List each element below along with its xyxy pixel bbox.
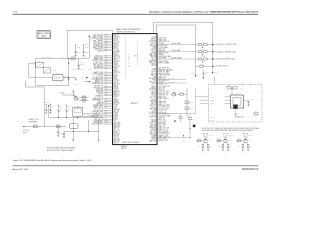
wire: drops bbox=[72, 117, 74, 131]
resistor R0442 (base) bbox=[216, 140, 224, 142]
microprocessor U0100 (Patriot) outline bbox=[113, 34, 158, 145]
svg-text:EIM_D5: EIM_D5 bbox=[113, 143, 118, 145]
capacitor C0153 bbox=[185, 107, 189, 110]
svg-text:R15D: R15D bbox=[105, 66, 108, 68]
off-page arrow J2_USB_D+_3V3 (SHT 1, B4) bbox=[213, 44, 215, 45]
svg-text:Q0442: Q0442 bbox=[228, 140, 232, 142]
svg-text:EXP1_CS*: EXP1_CS* bbox=[159, 96, 166, 98]
ferrite bead (filled) bbox=[193, 125, 195, 127]
svg-text:C0155: C0155 bbox=[205, 72, 209, 74]
regulator U0301 bbox=[73, 107, 83, 116]
svg-text:J2_USB_ID (SHT 1): J2_USB_ID (SHT 1) bbox=[216, 66, 229, 68]
svg-text:USB_D+_3V3: USB_D+_3V3 bbox=[159, 53, 168, 55]
wire: vertical drop bbox=[186, 88, 188, 117]
net INT_SPKR from U0100 bbox=[157, 112, 159, 114]
svg-text:VIP_IN_2_IN: VIP_IN_2_IN bbox=[94, 68, 103, 70]
svg-text:FROM SHEET 1: FROM SHEET 1 bbox=[29, 121, 39, 123]
svg-text:R0440: R0440 bbox=[183, 118, 187, 120]
wire: top route A bbox=[153, 22, 155, 33]
resistor R0220 bbox=[33, 126, 37, 128]
net EXP1_CS* from U0100 bbox=[157, 104, 159, 106]
svg-text:GND: GND bbox=[245, 153, 247, 155]
net EXT_SPKR from U0100 bbox=[157, 133, 159, 135]
U0103 internal bus line bbox=[137, 42, 139, 66]
net PA_EN from U0100 bbox=[157, 69, 159, 71]
svg-text:C3B: C3B bbox=[105, 68, 108, 70]
net EXT_SPKR from U0100 bbox=[157, 48, 159, 50]
TCXO box stubs bbox=[200, 96, 209, 98]
transistor Q0205 bbox=[74, 96, 78, 100]
wire: feedback loop right bbox=[68, 59, 70, 86]
svg-text:J2_MIC_HI: J2_MIC_HI bbox=[23, 130, 30, 132]
net USB_ID from U0100 bbox=[157, 120, 159, 122]
svg-text:CTL_MISO_5V: CTL_MISO_5V bbox=[159, 114, 169, 116]
svg-text:EIM_D4: EIM_D4 bbox=[152, 83, 157, 85]
svg-text:CTL_MOSI_OUT: CTL_MOSI_OUT bbox=[159, 86, 170, 88]
power flag A bbox=[68, 79, 70, 80]
svg-text:UNSW_B+: UNSW_B+ bbox=[44, 102, 50, 104]
wire: top route B bbox=[156, 25, 158, 34]
svg-text:MCU: MCU bbox=[135, 55, 138, 57]
wire: SPI to expansion bbox=[157, 79, 186, 81]
power flag pair with bypass caps bbox=[46, 104, 47, 105]
transistor Q0150 bbox=[172, 93, 176, 97]
TCXO shield (dashed outline) bbox=[209, 85, 263, 123]
off-page arrow (clock out) bbox=[174, 120, 176, 122]
svg-text:V5_EN: V5_EN bbox=[159, 89, 164, 91]
svg-text:J2_USB_VBUS (SHT 1, B6): J2_USB_VBUS (SHT 1, B6) bbox=[216, 59, 235, 61]
wire: Q0443 collector rail bbox=[244, 136, 247, 138]
capacitor C0444 bbox=[248, 100, 250, 101]
net EXT_SPKR from U0100 bbox=[157, 71, 159, 73]
svg-text:7-76: 7-76 bbox=[13, 11, 18, 13]
ground bbox=[72, 139, 74, 141]
net USB_VBUS from U0100 bbox=[157, 109, 159, 111]
svg-text:C0441: C0441 bbox=[227, 85, 231, 87]
svg-text:T16C: T16C bbox=[105, 87, 108, 89]
net CTL_SCLK from U0100 bbox=[157, 129, 159, 131]
off-page arrow J2_USB_VBUS (SHT 1, B6) bbox=[213, 58, 215, 59]
svg-text:C0302: C0302 bbox=[85, 51, 89, 53]
svg-text:R0442: R0442 bbox=[217, 138, 220, 140]
net ABACUS_CLK from U0100 bbox=[157, 126, 159, 128]
capacitor C0331 bbox=[66, 110, 68, 112]
EMI filter VR0152 bbox=[198, 51, 201, 53]
wire: SW_B+ rail bbox=[79, 58, 90, 60]
svg-text:GP3_INT*_OUT: GP3_INT*_OUT bbox=[92, 124, 103, 126]
U0103 internal bus line bbox=[125, 36, 127, 78]
svg-text:INT_SPKR_3V3: INT_SPKR_3V3 bbox=[159, 68, 170, 70]
svg-text:UNSW_B+: UNSW_B+ bbox=[208, 135, 214, 137]
transistor Q0442 bbox=[224, 139, 227, 142]
resistor R0445 bbox=[202, 145, 204, 148]
EMI filter VR0153 bbox=[198, 58, 201, 60]
power flag left bbox=[48, 105, 50, 106]
net ADC_IN2 from U0100 bbox=[157, 98, 159, 100]
svg-text:Schematics, Component Location: Schematics, Component Location Diagrams,… bbox=[149, 10, 259, 13]
svg-text:V2_EN: V2_EN bbox=[159, 82, 164, 84]
net USB_ID row bbox=[196, 65, 200, 67]
net TX_EN from U0100 bbox=[157, 50, 159, 52]
svg-text:U0103-2: U0103-2 bbox=[121, 146, 127, 148]
svg-text:GND: GND bbox=[225, 153, 227, 155]
net CTL_SCLK from U0100 bbox=[157, 122, 159, 124]
net MAP_SCL from U0100 bbox=[157, 92, 159, 94]
svg-text:Q0150: Q0150 bbox=[172, 90, 176, 92]
svg-text:C0221: C0221 bbox=[60, 133, 64, 135]
svg-text:GPIO_PB1: GPIO_PB1 bbox=[150, 116, 157, 118]
resistor R0441 (base) bbox=[196, 140, 204, 142]
svg-text:USB_D-_5V: USB_D-_5V bbox=[159, 83, 167, 85]
net USB_VBUS_RAW bbox=[157, 58, 197, 60]
svg-text:GP5: GP5 bbox=[128, 63, 131, 65]
svg-text:R0154: R0154 bbox=[200, 64, 204, 66]
power flags for Q0443 cell bbox=[243, 133, 244, 134]
transistor Q0441 bbox=[204, 139, 207, 142]
svg-text:Y0440: Y0440 bbox=[235, 93, 239, 95]
capacitor C0330 bbox=[58, 110, 60, 112]
svg-text:GP1: GP1 bbox=[128, 56, 131, 58]
resistor R0150 bbox=[180, 93, 184, 95]
svg-text:UNSW_B+: UNSW_B+ bbox=[228, 135, 234, 137]
svg-text:INT_SPKR: INT_SPKR bbox=[159, 58, 166, 60]
net V5_EN from U0100 bbox=[157, 102, 159, 104]
svg-text:TEMP_SNS_3V3: TEMP_SNS_3V3 bbox=[159, 75, 170, 77]
svg-text:CTL_SCLK: CTL_SCLK bbox=[159, 124, 166, 126]
svg-text:USB_D-_OUT: USB_D-_OUT bbox=[159, 140, 168, 142]
wire: feedback loop left bbox=[34, 59, 36, 86]
power flag C0302 bypass bbox=[83, 45, 85, 46]
header rule bbox=[13, 13, 259, 15]
svg-text:UNSW_B+: UNSW_B+ bbox=[248, 135, 254, 137]
svg-text:MICROPROCESSOR SECTION: MICROPROCESSOR SECTION bbox=[116, 31, 135, 33]
svg-text:Q0441: Q0441 bbox=[208, 140, 212, 142]
svg-text:SYN_LOCK: SYN_LOCK bbox=[159, 38, 167, 40]
net PA_EN from U0100 bbox=[157, 46, 159, 48]
net INT_SPKR from U0100 bbox=[157, 78, 159, 80]
resistor R0206 bbox=[82, 99, 86, 101]
net USB_ID from U0100 bbox=[157, 79, 159, 81]
svg-text:CTL_MISO_OUT: CTL_MISO_OUT bbox=[159, 133, 170, 135]
net DISP_TX from U0100 bbox=[157, 106, 159, 108]
crystal Y0440 16.8 MHz TCXO bbox=[231, 95, 244, 108]
net ADC_IN2 from U0100 bbox=[157, 74, 159, 76]
junction: bus end bbox=[212, 72, 213, 73]
ground bbox=[98, 139, 100, 141]
footer rule bbox=[13, 165, 259, 167]
svg-text:C0213: C0213 bbox=[88, 69, 92, 71]
svg-text:C0153: C0153 bbox=[190, 108, 194, 110]
op-amp U0201-A bbox=[36, 62, 44, 67]
grounds Q0443 bbox=[242, 148, 244, 150]
capacitor C0221 to ground bbox=[57, 125, 60, 128]
power flag bbox=[183, 135, 184, 136]
capacitor C0210 bbox=[77, 64, 79, 66]
net USB_D+_RAW bbox=[157, 44, 197, 46]
off-page arrow: audio out bbox=[84, 81, 89, 83]
net SYN_LOCK from U0100 bbox=[157, 62, 159, 64]
emitter legs Q0441 bbox=[203, 142, 205, 144]
net PA_EN from U0100 bbox=[157, 115, 159, 117]
net ABACUS_CLK from U0100 bbox=[157, 54, 159, 56]
net MAP_SCL from U0100 bbox=[157, 94, 159, 96]
grounds Q0441 bbox=[202, 148, 204, 150]
net PA_EN from U0100 bbox=[157, 117, 159, 119]
svg-text:CTL_CS*_OUT: CTL_CS*_OUT bbox=[159, 108, 169, 110]
capacitor C0441 bbox=[227, 87, 231, 89]
junction bbox=[68, 58, 69, 59]
svg-text:J2_PTT*: J2_PTT* bbox=[23, 132, 29, 134]
wire: left return bbox=[28, 63, 30, 77]
emitter legs Q0442 bbox=[223, 142, 225, 144]
net USB_VBUS from U0100 bbox=[157, 140, 159, 142]
net MAP_SCL from U0100 bbox=[157, 41, 159, 43]
off-page arrow J2_USB_D-_3V3 (SHT 1, B5) bbox=[213, 51, 215, 52]
net LVZIF_CS* from U0100 bbox=[157, 42, 159, 44]
svg-text:Figure 7-31. HUE4039A Control: Figure 7-31. HUE4039A Controller Block D… bbox=[13, 159, 92, 162]
svg-text:V_MCU: V_MCU bbox=[84, 44, 89, 46]
bus label box bbox=[84, 113, 97, 116]
svg-text:CTL_SCLK: CTL_SCLK bbox=[159, 138, 166, 140]
svg-text:GP7: GP7 bbox=[128, 66, 131, 68]
wire: row to buffer bbox=[157, 137, 190, 139]
net USB_D-_RAW bbox=[157, 51, 197, 53]
junction bbox=[212, 59, 213, 60]
net ABACUS_DAT from U0100 bbox=[157, 87, 159, 89]
svg-text:GND: GND bbox=[205, 153, 207, 155]
wire: clock feed bbox=[157, 113, 196, 115]
wire: Q0442 collector rail bbox=[224, 136, 227, 138]
ground bbox=[75, 54, 77, 56]
svg-text:R0212: R0212 bbox=[72, 69, 76, 71]
wire: route to J2 bbox=[24, 81, 26, 88]
svg-text:R0443: R0443 bbox=[237, 138, 240, 140]
capacitor C0333 bbox=[63, 131, 65, 133]
power flag C0301 bypass bbox=[75, 45, 77, 46]
wire: stub to U0201 bbox=[29, 62, 36, 64]
svg-text:U0202: U0202 bbox=[56, 73, 60, 75]
svg-text:J2_USB_D-_3V3 (SHT 1, B5): J2_USB_D-_3V3 (SHT 1, B5) bbox=[216, 51, 236, 53]
net DISP_TX from U0100 bbox=[157, 52, 159, 54]
svg-text:DISP_RX_5V: DISP_RX_5V bbox=[159, 95, 168, 97]
svg-text:VR0153: VR0153 bbox=[201, 56, 205, 58]
net DISP_RX from U0100 bbox=[157, 83, 159, 85]
svg-text:August 31, 2007: August 31, 2007 bbox=[13, 168, 30, 171]
svg-text:GP6: GP6 bbox=[128, 64, 131, 66]
svg-text:100K: 100K bbox=[238, 146, 241, 148]
capacitor C0302 bbox=[82, 50, 84, 52]
wire: mic audio net bbox=[35, 58, 67, 60]
svg-text:G7B: G7B bbox=[105, 81, 108, 83]
svg-text:TX_EN_3V3: TX_EN_3V3 bbox=[159, 110, 167, 112]
svg-text:GP0: GP0 bbox=[128, 54, 131, 56]
emitter legs Q0443 bbox=[243, 142, 245, 144]
thermal pad (filled) bbox=[234, 105, 238, 109]
ground bbox=[83, 54, 85, 56]
resistor R0447 bbox=[242, 145, 244, 148]
capacitor C0442 bbox=[233, 87, 237, 89]
net USB_D- from U0100 bbox=[157, 134, 159, 136]
svg-text:USB_D+_3V3: USB_D+_3V3 bbox=[159, 135, 168, 137]
net ABACUS_CLK from U0100 bbox=[157, 37, 159, 39]
capacitor C0301 bbox=[74, 50, 76, 52]
svg-text:EXP2_CS*: EXP2_CS* bbox=[159, 78, 166, 80]
wire: stub into shield bbox=[214, 77, 216, 85]
wire: Q0205 outputs bbox=[77, 97, 80, 100]
svg-text:DVDD: DVDD bbox=[77, 46, 81, 48]
svg-text:VR0152: VR0152 bbox=[201, 49, 205, 51]
wire: gnd bus bbox=[64, 130, 99, 132]
svg-text:QVDD: QVDD bbox=[85, 46, 89, 48]
power flags for Q0441 cell bbox=[203, 133, 204, 134]
svg-text:Q0443: Q0443 bbox=[248, 140, 252, 142]
net V5_EN from U0100 bbox=[157, 72, 159, 74]
net USB_D- from U0100 bbox=[157, 107, 159, 109]
capacitor C0155 bbox=[203, 70, 205, 73]
capacitor C0311 bbox=[49, 109, 51, 111]
net V2_EN from U0100 bbox=[157, 101, 159, 103]
net MOT_BIAS from U0100 bbox=[157, 91, 159, 93]
power flag B bbox=[75, 79, 77, 80]
svg-text:R0205: R0205 bbox=[82, 95, 85, 97]
net CTL_MISO from U0100 bbox=[157, 60, 159, 62]
junction bbox=[68, 63, 69, 64]
wire bbox=[62, 94, 73, 96]
svg-text:EN: EN bbox=[64, 78, 66, 80]
power flags for Q0442 cell bbox=[223, 133, 224, 134]
svg-text:R0210: R0210 bbox=[71, 56, 75, 58]
svg-text:SH0440: SH0440 bbox=[210, 117, 214, 119]
net CTL_MISO from U0100 bbox=[157, 81, 159, 83]
svg-text:1 VCC: 1 VCC bbox=[211, 96, 215, 98]
svg-text:IGNITION_RTN: IGNITION_RTN bbox=[92, 83, 103, 85]
svg-text:R0220: R0220 bbox=[34, 124, 38, 126]
svg-text:E5D: E5D bbox=[105, 107, 107, 109]
junction between C0441/C0442 bbox=[232, 88, 233, 89]
svg-text:EIM_D4: EIM_D4 bbox=[152, 65, 157, 67]
svg-text:C0301: C0301 bbox=[77, 51, 81, 53]
capacitor C0152 bbox=[185, 101, 189, 104]
off-page arrow into pin row bbox=[86, 77, 88, 79]
svg-text:SHIELD: SHIELD bbox=[210, 119, 214, 121]
svg-text:R0150: R0150 bbox=[180, 91, 184, 93]
svg-text:DISP_RX: DISP_RX bbox=[159, 50, 165, 52]
op-amp U0201-B bbox=[43, 68, 51, 73]
net EXP2_CS* from U0100 bbox=[157, 127, 159, 129]
resistor R0446 bbox=[222, 145, 224, 148]
wire: bus row bbox=[49, 116, 104, 118]
svg-text:R0221: R0221 bbox=[57, 124, 61, 126]
svg-text:L11B: L11B bbox=[105, 43, 108, 45]
svg-text:B2B: B2B bbox=[105, 50, 107, 52]
svg-text:100K: 100K bbox=[198, 146, 201, 148]
net TX_EN from U0100 bbox=[157, 131, 159, 133]
TCXO pin stubs bbox=[225, 96, 231, 98]
net ABACUS_CLK from U0100 bbox=[157, 89, 159, 91]
resistor R0221 bbox=[56, 126, 60, 128]
net TX_EN from U0100 bbox=[157, 76, 159, 78]
resistor R0441A bbox=[189, 114, 191, 118]
svg-text:N13B: N13B bbox=[105, 35, 108, 37]
svg-text:R0441: R0441 bbox=[197, 138, 200, 140]
svg-text:C0444: C0444 bbox=[250, 99, 254, 101]
grounds Q0442 bbox=[222, 148, 224, 150]
net USB_VBUS from U0100 bbox=[157, 39, 159, 41]
svg-text:3 OUT: 3 OUT bbox=[211, 103, 215, 105]
svg-text:2 GND: 2 GND bbox=[211, 100, 215, 102]
net ABACUS_CLK from U0100 bbox=[157, 57, 159, 59]
svg-text:CTL_MISO_3V3: CTL_MISO_3V3 bbox=[159, 106, 170, 108]
power flag VUSB bbox=[195, 75, 197, 76]
svg-text:GP2: GP2 bbox=[128, 57, 131, 59]
svg-text:L11C: L11C bbox=[105, 116, 108, 118]
power flag SW_B+ bbox=[88, 35, 90, 36]
wire: feedback loop bottom bbox=[35, 84, 68, 86]
wire: J2 mic line bbox=[23, 126, 67, 128]
svg-text:CTL_SCLK: CTL_SCLK bbox=[159, 121, 166, 123]
svg-text:V2_EN_3V3: V2_EN_3V3 bbox=[159, 45, 167, 47]
svg-text:GP1_INT*_OUT: GP1_INT*_OUT bbox=[92, 117, 103, 119]
svg-text:GP4: GP4 bbox=[128, 61, 131, 63]
svg-text:SW_B+: SW_B+ bbox=[60, 93, 65, 95]
power flag pair bbox=[58, 105, 59, 106]
wire: Q0441 collector rail bbox=[204, 136, 207, 138]
radio tuning table box bbox=[37, 31, 50, 39]
svg-text:R0206: R0206 bbox=[82, 102, 85, 104]
net DISP_TX from U0100 bbox=[157, 86, 159, 88]
svg-text:100K: 100K bbox=[218, 146, 221, 148]
resistor R0205 bbox=[82, 96, 86, 98]
svg-text:PATRIOT: PATRIOT bbox=[131, 102, 138, 105]
svg-text:VR0151: VR0151 bbox=[201, 42, 205, 44]
net USB_VBUS from U0100 bbox=[157, 113, 159, 115]
wire: top-left frame route bbox=[66, 30, 68, 58]
wire: down to filter bbox=[78, 59, 80, 65]
svg-text:VBUS: VBUS bbox=[214, 72, 217, 74]
capacitor C0310 bbox=[45, 109, 47, 111]
svg-text:C0152: C0152 bbox=[190, 102, 194, 104]
net TEMP_SNS from U0100 bbox=[157, 118, 159, 120]
svg-text:R0444: R0444 bbox=[254, 111, 257, 113]
svg-text:6816532H01-B: 6816532H01-B bbox=[242, 168, 258, 171]
wire: U0202 out bbox=[63, 77, 69, 79]
svg-text:EXP2_CS*_3V3: EXP2_CS*_3V3 bbox=[159, 104, 170, 106]
resistor R0440 bbox=[180, 114, 182, 117]
svg-text:H8B: H8B bbox=[105, 83, 108, 85]
net LVZIF_CS* from U0100 bbox=[157, 96, 159, 98]
svg-text:R15D: R15D bbox=[105, 102, 108, 104]
svg-text:16.8 MHZ TCXO: 16.8 MHZ TCXO bbox=[234, 117, 244, 119]
net ABACUS_CLK from U0100 bbox=[157, 124, 159, 126]
svg-text:Q0205: Q0205 bbox=[72, 92, 76, 94]
svg-text:J2_USB_D+_3V3 (SHT 1, B4): J2_USB_D+_3V3 (SHT 1, B4) bbox=[216, 44, 237, 46]
wire: SPI data bbox=[157, 82, 186, 84]
svg-text:C0210: C0210 bbox=[80, 64, 84, 66]
resistor R0210 bbox=[67, 58, 78, 60]
junction bbox=[212, 51, 213, 52]
filter FL0301 bbox=[70, 124, 78, 129]
net INT_SPKR from U0100 bbox=[157, 55, 159, 57]
svg-text:MIC_SEL: MIC_SEL bbox=[51, 70, 56, 72]
transistor Q0443 bbox=[244, 139, 247, 142]
net ABACUS_DAT from U0100 bbox=[157, 136, 159, 138]
svg-text:C0442: C0442 bbox=[240, 87, 244, 89]
svg-text:U0301: U0301 bbox=[76, 105, 80, 107]
svg-text:G7C: G7C bbox=[105, 114, 108, 116]
net V5_EN from U0100 bbox=[157, 67, 159, 69]
net USB_D+ from U0100 bbox=[157, 45, 159, 47]
svg-text:UNSW_B+_CNTL: UNSW_B+_CNTL bbox=[29, 119, 40, 121]
